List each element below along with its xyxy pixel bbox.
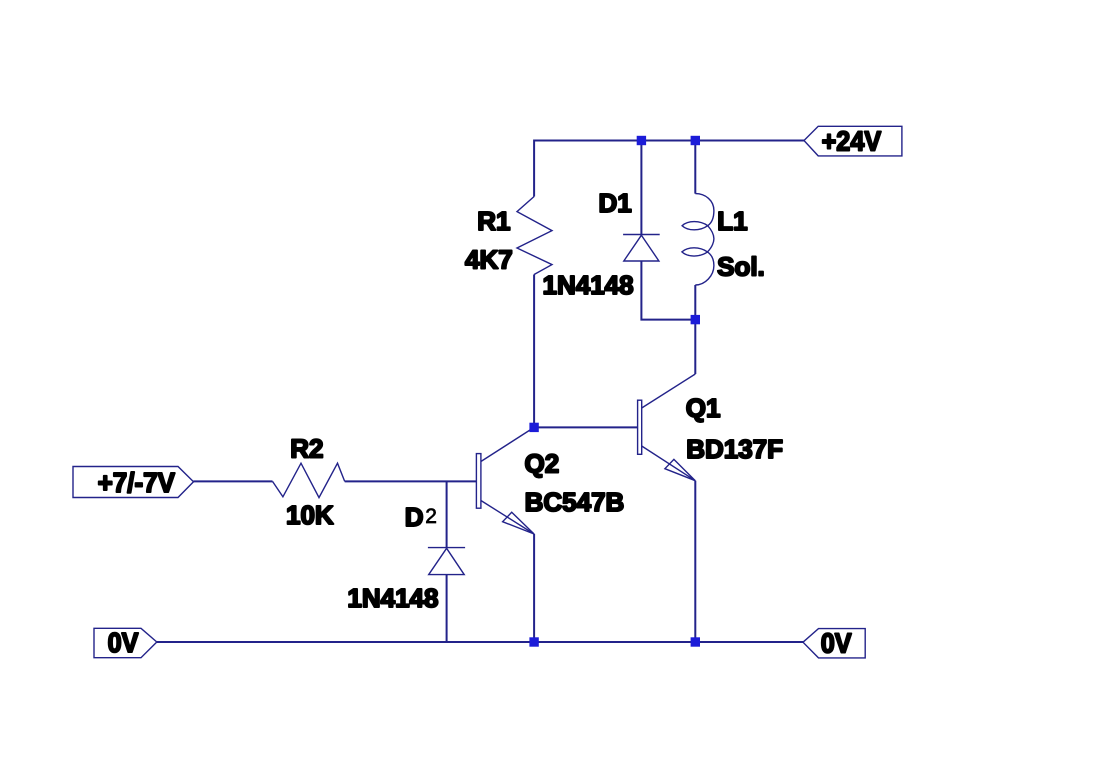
svg-text:D1: D1 <box>599 188 632 218</box>
svg-text:10K: 10K <box>286 500 334 530</box>
svg-text:1N4148: 1N4148 <box>543 270 634 300</box>
svg-text:R2: R2 <box>290 434 323 464</box>
svg-text:Sol.: Sol. <box>717 252 765 282</box>
svg-text:Q2: Q2 <box>525 449 560 479</box>
svg-text:2: 2 <box>425 505 437 528</box>
svg-text:0V: 0V <box>108 627 139 659</box>
svg-text:0V: 0V <box>821 627 852 659</box>
svg-text:BD137F: BD137F <box>686 434 783 464</box>
svg-text:BC547B: BC547B <box>525 487 625 517</box>
svg-text:1N4148: 1N4148 <box>347 583 438 613</box>
svg-text:L1: L1 <box>717 206 747 236</box>
svg-text:R1: R1 <box>477 206 510 236</box>
svg-text:+24V: +24V <box>822 125 882 157</box>
svg-text:+7/-7V: +7/-7V <box>98 467 175 498</box>
svg-text:4K7: 4K7 <box>465 245 513 275</box>
svg-text:D: D <box>405 502 424 532</box>
svg-text:Q1: Q1 <box>686 393 721 423</box>
